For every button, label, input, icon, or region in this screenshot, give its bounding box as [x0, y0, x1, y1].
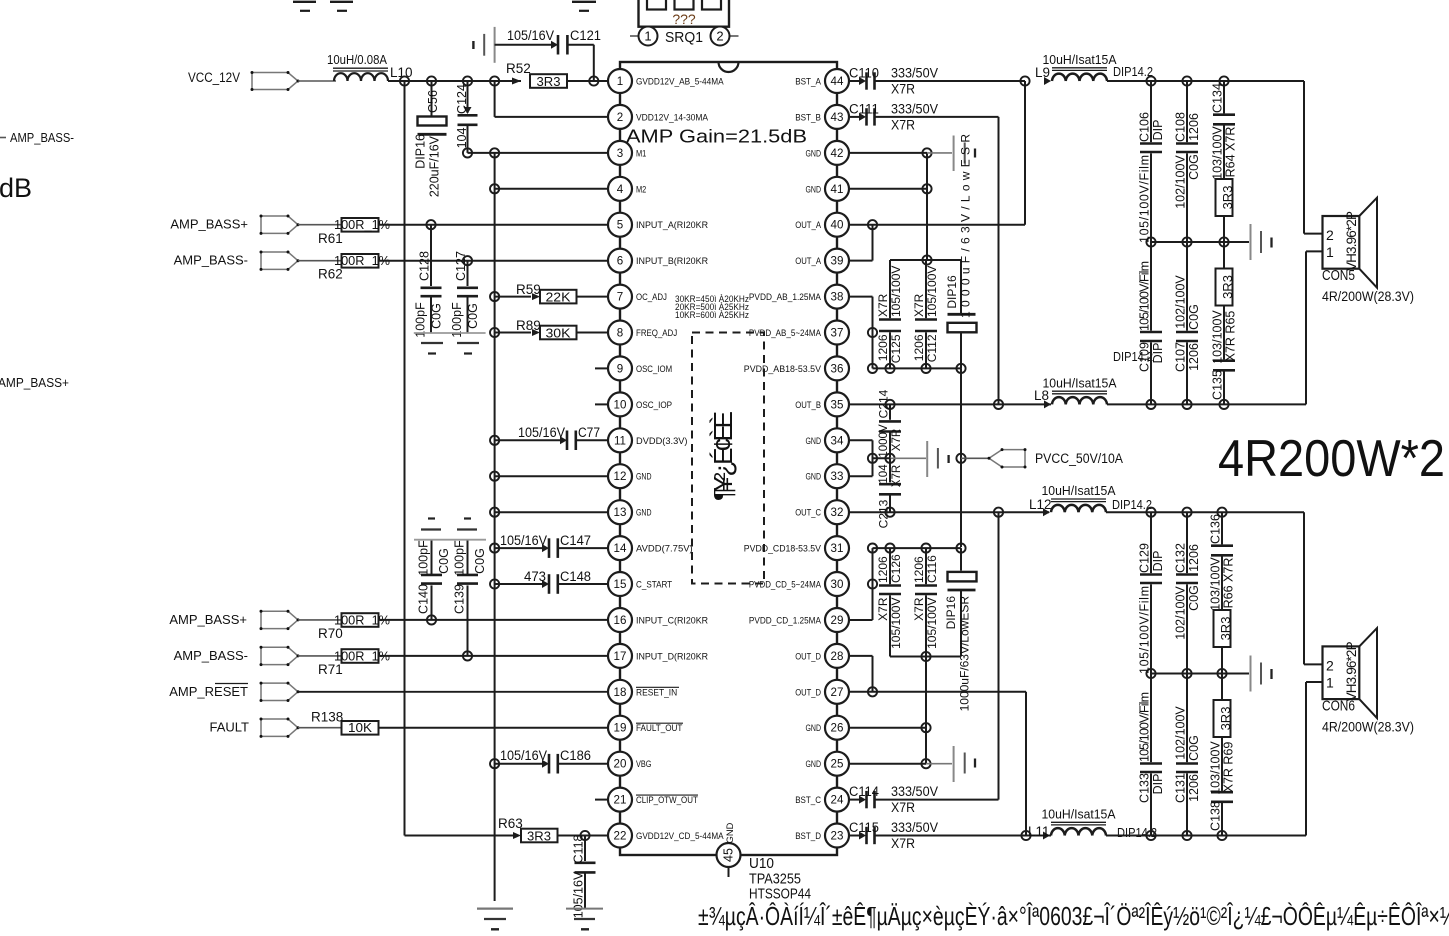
resistor R138 10K	[311, 710, 379, 736]
svg-text:1: 1	[617, 75, 623, 88]
svg-text:26: 26	[831, 722, 844, 735]
svg-text:100pF: 100pF	[452, 540, 466, 576]
svg-text:105/100V/Film: 105/100V/Film	[1137, 155, 1151, 243]
junction OUT_A at L9	[1020, 76, 1029, 85]
svg-text:45: 45	[722, 848, 736, 862]
node 12V rail junction	[400, 76, 409, 85]
pin 20 (VBG)	[608, 752, 652, 776]
svg-text:10uH/Isat15A: 10uH/Isat15A	[1043, 52, 1117, 67]
junction GND AB at C106	[1146, 237, 1155, 246]
svg-text:GND: GND	[725, 822, 735, 843]
junction rail B at C_START	[490, 579, 499, 588]
wire L10 to node 12V	[388, 80, 405, 82]
pin 27 (OUT_D)	[795, 680, 849, 704]
svg-text:25: 25	[831, 758, 844, 771]
svg-text:C0G: C0G	[1187, 585, 1201, 611]
ground (left of C121)	[473, 27, 494, 63]
svg-text:2: 2	[617, 111, 623, 124]
svg-text:C111: C111	[849, 101, 879, 116]
svg-text:AMP_BASS+: AMP_BASS+	[0, 375, 69, 390]
wire L9 to filter bus A	[1107, 81, 1323, 234]
svg-text:1206: 1206	[876, 334, 890, 361]
port AMP_RESET (to pin18)	[169, 682, 299, 702]
pin 7 (OC_ADJ)	[608, 285, 667, 309]
junction OUT_D at pin27	[868, 687, 877, 696]
junction GND at pin41	[922, 184, 931, 193]
wire R62 to pin6	[379, 260, 608, 262]
svg-text:AMP_BASS-: AMP_BASS-	[10, 130, 74, 145]
svg-text:R71: R71	[318, 662, 343, 677]
junction rail B at DVDD	[490, 436, 499, 445]
pin 29 (PVDD_CD_1.25MA)	[749, 608, 849, 632]
junction C139 at INPUT_D	[463, 651, 472, 660]
svg-text:X7R: X7R	[891, 429, 903, 451]
junction C56 at 12V rail	[427, 76, 436, 85]
junction GND at pin26	[921, 723, 930, 732]
svg-text:INPUT_D(RI20KR: INPUT_D(RI20KR	[636, 651, 708, 661]
svg-text:¶¥²¿É¢ÈÈ: ¶¥²¿É¢ÈÈ	[708, 411, 738, 501]
svg-text:10: 10	[614, 398, 627, 411]
svg-text:103/100V: 103/100V	[1208, 741, 1222, 795]
svg-text:X7R: X7R	[891, 836, 915, 851]
wire GND mid bus	[873, 457, 891, 459]
junction GND at pin42	[922, 148, 931, 157]
pin 34 (GND)	[806, 428, 850, 452]
svg-text:FAULT: FAULT	[210, 720, 250, 735]
wire BST_C vertical	[998, 512, 1000, 799]
svg-text:27: 27	[831, 686, 844, 699]
svg-text:X7R: X7R	[891, 117, 915, 132]
ground (mid right)	[890, 441, 949, 477]
junction filter D at C138	[1217, 831, 1226, 840]
resistor R71 100R_1%	[318, 648, 390, 677]
svg-text:GVDD12V_CD_5-44MA: GVDD12V_CD_5-44MA	[636, 831, 724, 841]
svg-text:1000V: 1000V	[878, 424, 890, 458]
svg-text:1206: 1206	[912, 556, 926, 583]
svg-text:C0G: C0G	[466, 303, 480, 329]
capacitor C106 105/100V/Film DIP	[1137, 81, 1165, 243]
svg-text:C0G: C0G	[1187, 304, 1201, 330]
junction C124 bottom at M1 net	[463, 148, 472, 157]
svg-text:DIP: DIP	[1151, 774, 1165, 795]
svg-text:R64 X7R: R64 X7R	[1223, 127, 1237, 178]
svg-text:R59: R59	[516, 282, 541, 297]
capacitor C77 105/16V	[495, 425, 607, 450]
svg-text:X7R R69: X7R R69	[1221, 742, 1235, 793]
svg-text:C108: C108	[1173, 112, 1187, 142]
svg-text:DIP: DIP	[1151, 120, 1165, 141]
svg-text:SRQ1: SRQ1	[665, 30, 703, 46]
junction filter C at C132	[1182, 508, 1191, 517]
svg-text:X7R: X7R	[876, 597, 890, 621]
capacitor C129 105/100V/Film DIP	[1137, 512, 1165, 674]
junction PVDD_CD at pin30	[868, 579, 877, 588]
junction filter A at C108	[1182, 76, 1191, 85]
junction GND AB at C134	[1219, 237, 1228, 246]
svg-text:DIP: DIP	[1151, 551, 1165, 572]
wire rail B to pin12 GND	[490, 472, 607, 481]
junction BST_B at OUT_B	[994, 400, 1003, 409]
svg-text:FAULT_OUT: FAULT_OUT	[636, 723, 683, 733]
junction rail B at OC_ADJ	[490, 292, 499, 301]
pin 42 (GND)	[806, 141, 850, 165]
svg-text:C0G: C0G	[1187, 154, 1201, 180]
svg-text:20: 20	[614, 758, 627, 771]
svg-text:dB: dB	[0, 173, 32, 203]
wire 12V rail A to R63	[405, 835, 514, 837]
svg-text:L9: L9	[1035, 65, 1050, 80]
svg-text:9: 9	[617, 362, 623, 375]
wire R89 to pin8	[577, 332, 608, 334]
wire R52 to pin1 node	[567, 80, 607, 82]
junction C125 at PVDD_AB	[885, 364, 894, 373]
svg-text:23: 23	[831, 830, 844, 843]
svg-text:103/100V: 103/100V	[1208, 557, 1222, 611]
capacitor C213 104 X7R	[876, 458, 903, 528]
capacitor C140 100pF C0G	[416, 540, 451, 620]
svg-text:R138: R138	[311, 710, 343, 725]
svg-text:C77: C77	[578, 425, 600, 440]
capacitor C108 102/100V C0G 1206	[1173, 81, 1201, 242]
wire R138 to pin19	[379, 727, 608, 729]
svg-text:X7R: X7R	[891, 82, 915, 97]
pin 10 (OSC_IOP)	[595, 392, 672, 416]
capacitor C121 105/16V	[495, 28, 601, 81]
svg-text:4: 4	[617, 183, 624, 196]
resistor R69 3R3	[1214, 674, 1233, 738]
capacitor C125 105/100V X7R 1206	[876, 260, 903, 368]
svg-text:2: 2	[716, 29, 723, 44]
pin 13 (GND)	[608, 500, 652, 524]
wire GND pin26	[850, 727, 926, 729]
wire AMP_RESET to pin18	[298, 691, 607, 693]
svg-text:R61: R61	[318, 231, 343, 246]
svg-text:3R3: 3R3	[1220, 275, 1235, 299]
port AMP_BASS- (to pin6)	[174, 251, 300, 271]
junction GND bus CD at x926	[921, 652, 930, 661]
wire rail B to pin13 GND	[490, 508, 607, 517]
svg-text:31: 31	[831, 542, 844, 555]
svg-text:8: 8	[617, 327, 623, 340]
svg-text:CON6: CON6	[1322, 698, 1355, 714]
svg-text:1206: 1206	[1187, 544, 1201, 572]
svg-text:R89: R89	[516, 318, 541, 333]
svg-text:105/16V: 105/16V	[500, 748, 547, 763]
junction filter A at C106	[1146, 76, 1155, 85]
junction filter B at C107	[1182, 400, 1191, 409]
svg-text:DIP14.2: DIP14.2	[1112, 497, 1152, 512]
pin 3 (M1)	[608, 141, 646, 165]
pin 21 (CLIP_OTW_OUT)	[595, 788, 698, 812]
capacitor C110 333/50V X7R (BST_A)	[849, 66, 1025, 97]
capacitor C127 100pF C0G	[450, 251, 480, 338]
junction GND CD at C129	[1146, 669, 1155, 678]
svg-text:GND: GND	[806, 472, 822, 482]
svg-text:VH3.96*2P: VH3.96*2P	[1344, 641, 1359, 701]
svg-text:CON5: CON5	[1322, 268, 1355, 284]
pin 5 (INPUT_A(RI20KR)	[608, 213, 708, 237]
svg-text:105/100V/Film: 105/100V/Film	[1137, 261, 1151, 331]
svg-text:BST_D: BST_D	[795, 831, 821, 841]
pin 9 (OSC_IOM)	[595, 356, 672, 380]
ground (filter CD)	[1251, 656, 1272, 692]
svg-text:19: 19	[614, 722, 627, 735]
capacitor C118 105/16V	[571, 834, 595, 918]
wire rail B to R89	[495, 332, 531, 334]
svg-text:220uF/16V: 220uF/16V	[427, 135, 441, 197]
port FAULT (to pin19)	[210, 718, 300, 738]
svg-text:OUT_A: OUT_A	[795, 256, 821, 266]
svg-text:3R3: 3R3	[527, 828, 551, 843]
junction GND bus at x927	[922, 255, 931, 264]
svg-text:DIP16: DIP16	[945, 275, 959, 309]
svg-text:24: 24	[831, 794, 844, 807]
svg-text:103/100V: 103/100V	[1210, 126, 1224, 180]
resistor R61 100R_1%	[318, 217, 390, 246]
svg-text:3: 3	[617, 147, 623, 160]
svg-text:3R3: 3R3	[1220, 186, 1235, 210]
junction PVDD_CD at pin31	[868, 544, 877, 553]
svg-text:C124: C124	[455, 84, 469, 114]
svg-text:C0G: C0G	[473, 548, 487, 574]
capacitor C113 1000uF/63V/LowESR DIP16	[945, 134, 977, 369]
capacitor C114 333/50V X7R (BST_C)	[849, 784, 999, 815]
text AMP Gain=21.5dB	[626, 127, 807, 147]
svg-text:33: 33	[831, 470, 844, 483]
wire BST_A node down to OUT_A row	[850, 81, 1025, 225]
pin 36 (PVDD_AB18-53.5V)	[744, 356, 849, 380]
wire GND CD vertical	[925, 657, 927, 764]
svg-text:34: 34	[831, 434, 844, 447]
svg-text:1206: 1206	[912, 334, 926, 361]
svg-text:GND: GND	[806, 759, 822, 769]
text partial dB (left edge)	[0, 173, 32, 203]
svg-text:2: 2	[1326, 657, 1334, 673]
pin 11 (DVDD(3.3V))	[608, 428, 688, 452]
svg-text:10uH/Isat15A: 10uH/Isat15A	[1042, 807, 1116, 822]
wire AMP_BASS- to R71	[298, 655, 342, 657]
capacitor C117 1000uF/63V/LowESR DIP16	[944, 548, 977, 711]
svg-text:C_START: C_START	[636, 580, 672, 590]
svg-text:C213: C213	[876, 499, 890, 528]
resistor R52 3R3	[506, 61, 567, 89]
svg-text:X7R: X7R	[912, 597, 926, 621]
svg-text:AMP_BASS+: AMP_BASS+	[170, 217, 248, 232]
svg-text:???: ???	[672, 11, 696, 27]
ground (partial, top left 1)	[293, 2, 316, 11]
pin 19 (FAULT_OUT)	[608, 716, 683, 740]
svg-text:10KR=600ì À25KHz: 10KR=600ì À25KHz	[675, 310, 749, 321]
junction GND at pin25	[921, 759, 930, 768]
svg-text:AMP_RESET: AMP_RESET	[169, 684, 248, 699]
ground (right of pin42)	[927, 136, 975, 172]
svg-text:C0G: C0G	[1187, 735, 1201, 761]
junction GND CD at C132	[1182, 669, 1191, 678]
pin 31 (PVDD_CD18-53.5V)	[744, 536, 849, 560]
svg-text:DIP16: DIP16	[944, 596, 958, 630]
pin 24 (BST_C)	[795, 788, 849, 812]
svg-text:C127: C127	[454, 251, 468, 281]
svg-text:X7R: X7R	[912, 293, 926, 317]
svg-text:X7R: X7R	[891, 800, 915, 815]
svg-text:105/16V: 105/16V	[571, 871, 585, 918]
svg-text:OUT_A: OUT_A	[795, 220, 821, 230]
wire R61 to pin5	[379, 224, 608, 226]
wire M1 net to pin3	[468, 152, 608, 154]
svg-text:U10: U10	[749, 856, 774, 872]
svg-text:C110: C110	[849, 66, 879, 81]
port AMP_BASS+ (to pin5)	[170, 215, 299, 235]
pin 18 (RESET_IN)	[608, 680, 679, 704]
svg-text:C109: C109	[1137, 342, 1151, 372]
svg-text:X7R: X7R	[876, 293, 890, 317]
text partial AMP_BASS+ (left edge)	[0, 375, 69, 390]
svg-text:AMP_BASS+: AMP_BASS+	[169, 612, 247, 627]
ground (below C128 C127)	[414, 333, 486, 354]
svg-text:41: 41	[831, 183, 844, 196]
capacitor C112 105/100V X7R 1206	[912, 260, 939, 368]
svg-text:18: 18	[614, 686, 627, 699]
svg-text:DIP16: DIP16	[413, 134, 427, 169]
svg-text:DVDD(3.3V): DVDD(3.3V)	[636, 436, 688, 446]
wire L8 to filter bus B	[1107, 251, 1323, 404]
text rotated note (mojibake)	[708, 411, 738, 501]
resistor R64 3R3	[1216, 179, 1235, 242]
junction filter B at C135	[1219, 400, 1228, 409]
pin 32 (OUT_C)	[795, 500, 849, 524]
wire GND pin25	[850, 763, 926, 765]
svg-text:1206: 1206	[876, 556, 890, 583]
pin 39 (OUT_A)	[795, 249, 849, 273]
svg-text:22K: 22K	[546, 289, 571, 304]
svg-text:1000uF/63V/LowESR: 1000uF/63V/LowESR	[957, 596, 971, 712]
svg-text:14: 14	[614, 542, 627, 555]
wire PVDD_AB row pin36	[873, 367, 962, 369]
inductor L8 10uH/Isat15A	[1034, 349, 1153, 408]
svg-text:M2: M2	[636, 184, 646, 194]
svg-text:OUT_D: OUT_D	[795, 687, 821, 697]
pin 37 (PVDD_AB_5~24MA)	[749, 321, 849, 345]
wire 12V rail A vertical	[404, 81, 406, 836]
resistor R66 3R3	[1214, 610, 1233, 674]
svg-text:1206: 1206	[1187, 113, 1201, 141]
capacitor C128 100pF C0G	[413, 225, 443, 338]
svg-text:4R200W*2: 4R200W*2	[1218, 430, 1445, 488]
capacitor C139 100pF C0G	[452, 540, 487, 656]
svg-text:GND: GND	[806, 148, 822, 158]
pin 12 (GND)	[608, 464, 652, 488]
pin 25 (GND)	[806, 752, 850, 776]
svg-text:C147: C147	[560, 533, 591, 548]
svg-text:102/100V: 102/100V	[1173, 586, 1187, 640]
wire PVDD spine to PVCC	[960, 368, 962, 547]
wire filter GND bus CD	[1151, 673, 1249, 675]
text bottom note (mojibake)	[698, 901, 1449, 931]
capacitor C147 105/16V	[495, 533, 607, 558]
svg-text:C131: C131	[1173, 773, 1187, 803]
svg-text:10K: 10K	[348, 720, 372, 735]
ground (below C118)	[566, 909, 603, 930]
svg-text:102/100V: 102/100V	[1173, 275, 1187, 329]
wire L11 to filter bus D	[1106, 682, 1323, 836]
svg-text:3R3: 3R3	[1218, 707, 1233, 731]
svg-text:C139: C139	[452, 584, 466, 614]
svg-text:104: 104	[878, 464, 890, 484]
resistor R62 100R_1%	[318, 253, 390, 282]
pin 41 (GND)	[806, 177, 850, 201]
svg-text:3R3: 3R3	[537, 74, 561, 89]
pin 16 (INPUT_C(RI20KR)	[608, 608, 708, 632]
svg-text:C106: C106	[1137, 112, 1151, 142]
text partial AMP_BASS- (left edge)	[0, 130, 74, 145]
junction C118 at GVDD12V_CD	[580, 831, 589, 840]
svg-text:C56: C56	[426, 90, 440, 113]
svg-text:GND: GND	[636, 508, 652, 518]
capacitor C109 105/100V/Film DIP	[1137, 242, 1165, 404]
wire OUT_D to L11	[850, 692, 1026, 836]
inductor L10 10uH/0.08A	[327, 52, 413, 81]
svg-text:333/50V: 333/50V	[891, 66, 938, 81]
svg-text:INPUT_A(RI20KR: INPUT_A(RI20KR	[636, 220, 708, 230]
svg-text:BST_C: BST_C	[795, 795, 821, 805]
resistor R70 100R_1%	[318, 612, 390, 641]
svg-text:R62: R62	[318, 267, 343, 282]
svg-text:C107: C107	[1173, 342, 1187, 372]
pin 1 (GVDD12V_AB_5-44MA)	[608, 69, 724, 93]
wire M2 net to pin4	[495, 188, 607, 190]
svg-text:15: 15	[614, 578, 627, 591]
svg-text:RESET_IN: RESET_IN	[636, 687, 677, 697]
svg-text:3R3: 3R3	[1218, 617, 1233, 641]
junction PVDD spine at pin31	[956, 544, 965, 553]
svg-text:C116: C116	[925, 555, 939, 583]
resistor R63 3R3	[498, 816, 558, 843]
capacitor C138 103/100V X7R	[1208, 737, 1235, 836]
svg-text:C125: C125	[889, 334, 903, 363]
svg-text:4R/200W(28.3V): 4R/200W(28.3V)	[1322, 719, 1414, 734]
svg-text:OUT_C: OUT_C	[795, 508, 821, 518]
capacitor C186 105/16V	[495, 748, 607, 774]
wire R70 to pin16	[379, 619, 608, 621]
svg-text:105/16V: 105/16V	[507, 28, 554, 43]
svg-text:AVDD(7.75V): AVDD(7.75V)	[636, 544, 693, 554]
svg-text:C132: C132	[1173, 543, 1187, 573]
component SRQ1	[630, 0, 739, 46]
wire AMP_BASS+ to R61	[298, 224, 342, 226]
ground (above C140 C139)	[414, 519, 486, 540]
capacitor C115 333/50V X7R (BST_D)	[849, 820, 1051, 851]
svg-text:32: 32	[831, 506, 844, 519]
junction C112 at PVDD_AB	[921, 364, 930, 373]
svg-text:C133: C133	[1137, 773, 1151, 803]
pin 8 (FREQ_ADJ)	[608, 321, 677, 345]
svg-text:BST_A: BST_A	[795, 77, 821, 87]
wire GND bus CD (C126 C116 C117 bottoms)	[890, 656, 961, 658]
svg-text:42: 42	[831, 147, 844, 160]
ground (main, bottom of rail B)	[477, 909, 513, 930]
capacitor C134 103/100V X7R	[1210, 81, 1237, 180]
junction filter C at C129	[1146, 508, 1155, 517]
svg-text:C214: C214	[876, 389, 890, 418]
capacitor C131 102/100V C0G 1206	[1173, 674, 1201, 836]
capacitor C135 103/100V X7R	[1210, 306, 1237, 405]
capacitor C214 1000V X7R	[876, 389, 903, 458]
svg-text:TPA3255: TPA3255	[749, 872, 801, 888]
pin 35 (OUT_B)	[795, 392, 849, 416]
svg-text:C140: C140	[416, 584, 430, 614]
svg-text:C118: C118	[571, 834, 585, 863]
note OC_ADJ values	[675, 294, 749, 321]
